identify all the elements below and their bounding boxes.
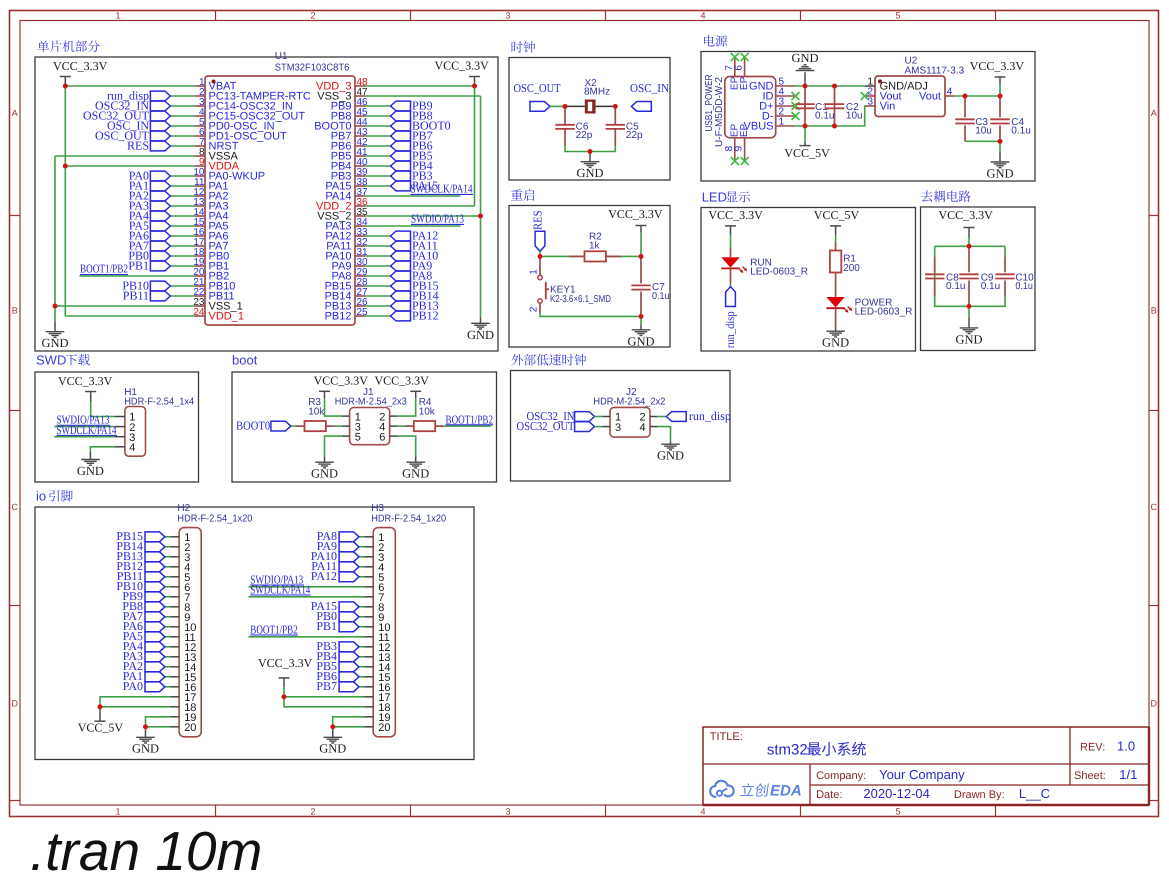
wire H2 pin17 to VCC_5V xyxy=(100,697,170,707)
wire to GND xyxy=(999,141,1001,151)
net flag PB4 xyxy=(391,161,411,171)
section box: clock xyxy=(509,58,670,181)
net flag PA15 xyxy=(391,181,411,191)
capacitor C10 leads xyxy=(1004,257,1006,273)
net label SWDIO/PA13 (H1) xyxy=(57,413,111,427)
net flag PA3 (H2) xyxy=(145,652,165,662)
wire H1 pin4 to GND xyxy=(90,447,114,452)
net flag PA0 (H2) xyxy=(145,682,165,692)
svg-text:GND: GND xyxy=(576,166,603,180)
wire pin 22 xyxy=(170,295,195,297)
ground (H2) xyxy=(136,737,155,743)
svg-text:2: 2 xyxy=(310,806,315,816)
svg-text:24: 24 xyxy=(193,307,205,318)
svg-text:3: 3 xyxy=(615,422,621,434)
junction bottom rail xyxy=(967,304,972,309)
svg-text:VCC_3.3V: VCC_3.3V xyxy=(708,208,763,222)
wire C8 left top xyxy=(934,246,936,256)
svg-text:GND: GND xyxy=(986,167,1013,181)
svg-text:VCC_3.3V: VCC_3.3V xyxy=(970,59,1025,73)
wire VCC rail right xyxy=(474,86,476,206)
H1 pins 1-4 (stubs and numbers) xyxy=(115,412,136,454)
wire H2 pin 9 xyxy=(165,616,171,618)
svg-text:U-F-M5DD-W-2: U-F-M5DD-W-2 xyxy=(714,77,725,147)
svg-text:5: 5 xyxy=(895,10,900,20)
svg-text:0.1u: 0.1u xyxy=(1015,281,1033,292)
junction GND/C2 xyxy=(832,84,837,89)
net flag OSC_OUT xyxy=(150,131,170,141)
svg-text:SWDCLK/PA14: SWDCLK/PA14 xyxy=(250,582,310,596)
section title 重启 xyxy=(511,189,534,201)
svg-text:PB1: PB1 xyxy=(128,258,149,272)
wire pin 44 xyxy=(365,125,391,127)
wire VDDA xyxy=(65,165,195,167)
wire pin 12 xyxy=(170,195,195,197)
wire pin 26 xyxy=(365,305,391,307)
svg-text:run_disp: run_disp xyxy=(689,409,731,423)
svg-text:SWDCLK/PA14: SWDCLK/PA14 xyxy=(411,182,473,196)
wire to GND (reset) xyxy=(640,316,642,324)
net flag PB6 xyxy=(391,141,411,151)
wire H2 pin20 xyxy=(146,726,171,728)
capacitor C9 leads xyxy=(968,246,970,272)
svg-text:0.1u: 0.1u xyxy=(1011,126,1030,137)
svg-text:VCC_3.3V: VCC_3.3V xyxy=(939,208,994,222)
net flag PB12 (H2) xyxy=(145,562,165,572)
svg-text:GND: GND xyxy=(402,467,429,481)
svg-text:LED-0603_R: LED-0603_R xyxy=(855,306,913,317)
svg-text:BOOT1/PB2: BOOT1/PB2 xyxy=(250,622,297,636)
ground stem xyxy=(835,328,837,331)
svg-text:K2-3.6×6.1_SMD: K2-3.6×6.1_SMD xyxy=(550,294,611,305)
svg-text:RES: RES xyxy=(531,211,545,231)
svg-text:10u: 10u xyxy=(975,126,992,137)
net flag PB15 (H2) xyxy=(145,532,165,542)
svg-text:GND: GND xyxy=(955,332,982,346)
wire VCC to RUN LED xyxy=(730,235,732,247)
ground (reset) xyxy=(632,330,651,336)
ground stem xyxy=(415,456,417,462)
net label BOOT1/PB2 (boot) xyxy=(446,412,494,426)
svg-text:Company:: Company: xyxy=(816,770,866,782)
net flag PA5 xyxy=(150,221,170,231)
svg-text:200: 200 xyxy=(843,263,860,274)
net label SWDCLK/PA14 (pin 37) xyxy=(411,182,474,196)
net flag PB7 (H3) xyxy=(339,682,359,692)
section title 去耦电路 xyxy=(921,190,970,202)
svg-text:BOOT1/PB2: BOOT1/PB2 xyxy=(80,262,128,276)
LED RUN cathode lead xyxy=(730,269,732,284)
net flag PA10 xyxy=(391,251,411,261)
wire H2 pin 10 xyxy=(165,626,171,628)
section box: power xyxy=(701,52,1035,182)
wire J2 pin4 to GND xyxy=(658,427,671,442)
junction GND (H2) xyxy=(143,724,148,729)
svg-text:PB7: PB7 xyxy=(316,679,337,693)
net flag PB1 (H3) xyxy=(339,622,359,632)
section title 电源 xyxy=(704,35,727,47)
net flag PB0 (H3) xyxy=(339,612,359,622)
capacitor C8 xyxy=(925,274,944,278)
svg-text:C: C xyxy=(11,502,18,512)
section title 时钟 xyxy=(512,41,536,53)
wire pin 25 xyxy=(365,315,391,317)
svg-text:Date:: Date: xyxy=(816,789,842,801)
svg-text:BOOT1/PB2: BOOT1/PB2 xyxy=(446,412,494,426)
net flag OSC32_OUT xyxy=(575,422,595,432)
wire H3 pin 9 xyxy=(359,616,365,618)
power symbol xyxy=(85,392,96,402)
net flag PB1 xyxy=(150,261,170,271)
wire VCC to rail xyxy=(968,237,970,246)
ground (boot right) xyxy=(406,462,425,468)
net flag PA11 (H3) xyxy=(339,562,359,572)
wire VCC to J1 pin2 xyxy=(397,398,416,416)
wire VDD_3 xyxy=(365,85,475,87)
no-connect pin 6 xyxy=(741,53,749,61)
svg-text:SWDIO/PA13: SWDIO/PA13 xyxy=(411,212,464,226)
wire VBUS to Vin xyxy=(835,106,867,126)
net label SWDIO/PA13 (pin 34) xyxy=(411,212,464,226)
USB1 bottom pins 8,9 (EP) xyxy=(724,124,750,160)
net flag PB8 (H2) xyxy=(145,602,165,612)
svg-text:GND: GND xyxy=(627,334,654,348)
svg-text:GND: GND xyxy=(41,336,68,350)
svg-text:4: 4 xyxy=(700,806,705,816)
net flag PB8 xyxy=(391,111,411,121)
power flag VCC_3.3V (MCU right) xyxy=(435,59,490,87)
svg-text:VCC_5V: VCC_5V xyxy=(78,721,124,735)
power symbol xyxy=(469,77,480,87)
wire BOOT0 to R3 xyxy=(291,425,296,427)
wire pin 7 xyxy=(170,145,195,147)
net flag PA4 (H2) xyxy=(145,642,165,652)
power symbol xyxy=(279,678,290,687)
svg-text:HDR-F-2.54_1x20: HDR-F-2.54_1x20 xyxy=(177,513,252,524)
wire RES to R2/C7 xyxy=(540,255,641,257)
wire VCC_5V to R1 xyxy=(835,235,837,243)
svg-text:0.1u: 0.1u xyxy=(981,281,1000,292)
svg-text:PB12: PB12 xyxy=(412,308,439,322)
net flag PA12 (H3) xyxy=(339,572,359,582)
svg-text:VBUS: VBUS xyxy=(744,121,774,133)
svg-text:A: A xyxy=(12,108,18,118)
wire VBUS xyxy=(795,125,835,127)
ground stem xyxy=(332,727,334,738)
no-connect pin 9 xyxy=(741,157,749,165)
net flag run_disp J2 xyxy=(666,412,686,422)
svg-text:20: 20 xyxy=(184,722,196,734)
svg-text:1: 1 xyxy=(529,269,540,275)
svg-text:Drawn By:: Drawn By: xyxy=(954,789,1005,801)
net label SWDCLK/PA14 (H3) xyxy=(250,582,310,596)
ground (SWD) xyxy=(81,460,100,466)
ground (J2) xyxy=(661,444,680,450)
wire pin 45 xyxy=(365,115,391,117)
junction VSS_2 xyxy=(478,214,483,219)
wire H3 pin 14 xyxy=(359,666,365,668)
capacitor C3 xyxy=(955,119,974,123)
power flag VCC_3.3V (H3) xyxy=(258,656,313,687)
wire SWDIO/PA13 to H3 pin6 xyxy=(249,586,365,588)
power flag VCC_3.3V (decoupling) xyxy=(939,208,994,237)
crystal X2 leads xyxy=(565,105,585,107)
ground stem xyxy=(145,727,147,738)
capacitor C4 xyxy=(990,119,1009,123)
power flag VCC_3.3V (SWD) xyxy=(58,374,113,402)
net flag run_disp xyxy=(726,287,736,307)
connector J2 body (HDR-M-2.54_2x2) xyxy=(610,407,650,437)
svg-text:10u: 10u xyxy=(846,111,863,122)
capacitor C7 xyxy=(631,285,650,289)
wire VSSA xyxy=(55,155,195,157)
resistor R2 xyxy=(585,251,606,261)
no-connect pin 7 xyxy=(731,53,739,61)
svg-text:20: 20 xyxy=(378,722,390,734)
wire R4 to BOOT1/PB2 xyxy=(444,425,491,427)
svg-text:6: 6 xyxy=(379,431,385,443)
net flag PB12 xyxy=(391,311,411,321)
capacitor C8 leads xyxy=(934,257,936,273)
capacitor C9 xyxy=(959,274,978,278)
power flag VCC_3.3V (reset) xyxy=(608,207,663,232)
wire H2 pin 13 xyxy=(165,656,171,658)
connector H3 body (HDR-F-2.54_1x20) xyxy=(373,528,395,737)
svg-text:10k: 10k xyxy=(419,407,436,418)
wire H3 pin20 xyxy=(333,726,365,728)
net flag PA8 (H3) xyxy=(339,532,359,542)
svg-text:VCC_3.3V: VCC_3.3V xyxy=(608,207,663,221)
wire VCC vertical rail xyxy=(64,86,66,166)
section title LED显示 xyxy=(702,190,750,205)
svg-text:PA12: PA12 xyxy=(311,569,337,583)
wire VBAT to VCC rail xyxy=(65,85,195,87)
net flag PA7 (H2) xyxy=(145,612,165,622)
capacitor C6 xyxy=(555,125,574,129)
net label SWDIO/PA13 (H3) xyxy=(250,572,304,586)
net flag PA2 (H2) xyxy=(145,662,165,672)
net label BOOT1/PB2 (H3) xyxy=(250,622,298,636)
power symbol xyxy=(830,226,841,236)
svg-text:4: 4 xyxy=(700,10,705,20)
svg-text:LED-0603_R: LED-0603_R xyxy=(750,266,808,277)
wire J1 pin5 to GND xyxy=(325,436,342,456)
ground (MCU right) xyxy=(471,323,490,329)
wire pin 41 xyxy=(365,155,391,157)
svg-text:boot: boot xyxy=(232,353,258,368)
power flag VCC_5V (below VBUS) xyxy=(784,141,830,160)
wire pin 18 xyxy=(170,255,195,257)
J1 pins (stubs and numbers) xyxy=(342,411,397,443)
svg-text:io: io xyxy=(36,489,46,504)
net flag PB13 xyxy=(391,301,411,311)
svg-text:1/1: 1/1 xyxy=(1119,767,1137,782)
junction dots overlay xyxy=(53,84,1003,730)
wire U2 Vout to VCC_3.3V xyxy=(954,95,1000,97)
junction VBUS/C1 xyxy=(803,124,808,129)
svg-text:GND: GND xyxy=(311,467,338,481)
pushbutton KEY1 xyxy=(538,256,549,313)
svg-text:VCC_3.3V: VCC_3.3V xyxy=(53,59,108,73)
svg-text:2020-12-04: 2020-12-04 xyxy=(863,786,930,801)
net flag PB11 (H2) xyxy=(145,572,165,582)
svg-text:PB12: PB12 xyxy=(325,311,352,323)
net flag PA3 xyxy=(150,201,170,211)
wire H2 pin 2 xyxy=(165,546,171,548)
svg-text:Sheet:: Sheet: xyxy=(1074,770,1106,782)
svg-text:1k: 1k xyxy=(589,241,601,252)
section box: decoupling xyxy=(921,207,1036,351)
svg-text:6: 6 xyxy=(734,65,745,71)
J2 pins (stubs and numbers) xyxy=(602,412,657,434)
resistor R3 xyxy=(305,421,326,431)
net label SWDCLK/PA14 (H1) xyxy=(57,423,118,437)
net flag OSC_OUT xyxy=(530,102,550,112)
power flag VCC_3.3V (power section) xyxy=(970,59,1025,86)
svg-text:HDR-M-2.54_2x3: HDR-M-2.54_2x3 xyxy=(335,397,407,408)
wire H3 pin 13 xyxy=(359,656,365,658)
wire VCC to J1 pin1 xyxy=(325,398,342,416)
ground (MCU left) xyxy=(46,332,65,338)
op-amp U1 body (STM32F103C8T6) xyxy=(205,76,355,325)
power symbol xyxy=(60,77,71,87)
capacitor C6 leads xyxy=(564,106,566,124)
junction C7 GND xyxy=(639,314,644,319)
svg-text:VCC_3.3V: VCC_3.3V xyxy=(435,59,490,73)
net flag PA6 (H2) xyxy=(145,622,165,632)
ground (clock) xyxy=(581,162,600,168)
svg-text:9: 9 xyxy=(734,145,745,151)
junction R2/C7 xyxy=(639,254,644,259)
wire pin 3 xyxy=(170,105,195,107)
svg-text:stm32: stm32 xyxy=(767,742,808,759)
wire to GND right xyxy=(480,216,482,317)
svg-text:2: 2 xyxy=(529,306,540,312)
ground stem xyxy=(480,317,482,323)
no-connect D+ xyxy=(792,102,800,110)
capacitor C5 xyxy=(606,125,625,129)
svg-text:5: 5 xyxy=(895,806,900,816)
net flag PB11 xyxy=(150,291,170,301)
svg-text:Vin: Vin xyxy=(880,101,896,113)
svg-text:VDD_1: VDD_1 xyxy=(209,311,244,323)
wire J1 pin6 to GND xyxy=(397,436,416,456)
wire pin 14 xyxy=(170,215,195,217)
svg-text:.tran 10m: .tran 10m xyxy=(30,820,262,880)
wire C3/C4 bottom xyxy=(965,140,1000,142)
wire H3 pin 4 xyxy=(359,566,365,568)
junction VDD_3 xyxy=(472,84,477,89)
svg-text:22p: 22p xyxy=(576,130,593,141)
wire pin 5 xyxy=(170,125,195,127)
resistor R1 xyxy=(830,251,841,273)
svg-text:D: D xyxy=(1151,699,1158,709)
wire H3 pin 3 xyxy=(359,556,365,558)
wire VSS_3 xyxy=(365,95,481,97)
no-connect D- xyxy=(792,112,800,120)
wire H2 pin18 xyxy=(100,706,170,708)
wire pin 33 xyxy=(365,235,391,237)
svg-text:SWD: SWD xyxy=(36,353,66,368)
resistor R1 leads xyxy=(835,243,837,251)
wire H3 pin18 xyxy=(284,697,365,707)
power symbol xyxy=(319,391,330,398)
svg-text:1.0: 1.0 xyxy=(1117,739,1135,754)
junction VBUS/C2 xyxy=(832,124,837,129)
wire H2 pin 1 xyxy=(165,536,171,538)
wire VCC rail to VDD_1 xyxy=(64,166,66,316)
ground stem xyxy=(804,72,806,86)
ground (decoupling) xyxy=(960,328,979,334)
USB1 top pins 7,6 (EP) xyxy=(724,59,750,91)
ground stem xyxy=(589,152,591,162)
net flag PA15 (H3) xyxy=(339,602,359,612)
LED POWER cathode lead xyxy=(835,309,837,329)
svg-text:GND: GND xyxy=(319,741,346,755)
power flag VCC_3.3V (LED) xyxy=(708,208,763,235)
wire H3 pin 1 xyxy=(359,536,365,538)
capacitor C1 lead xyxy=(804,86,806,126)
wire pin 6 xyxy=(170,135,195,137)
junction C4 GND xyxy=(998,139,1003,144)
net label BOOT1/PB2 (pin 20) xyxy=(80,262,128,276)
wire H2 pin 15 xyxy=(165,676,171,678)
svg-text:Vout: Vout xyxy=(919,91,941,103)
svg-text:3: 3 xyxy=(867,97,873,108)
svg-text:GND: GND xyxy=(791,51,818,65)
power flag VCC_3.3V (boot left) xyxy=(314,374,369,399)
resistor R4 xyxy=(414,421,435,431)
wire OSC32_IN to J2 xyxy=(595,416,603,418)
power flag VCC_3.3V (MCU left) xyxy=(53,59,108,86)
svg-text:U1: U1 xyxy=(275,51,288,62)
wire H2 pin 7 xyxy=(165,596,171,598)
svg-text:OSC_OUT: OSC_OUT xyxy=(514,81,562,95)
wire USB GND to U2 xyxy=(795,85,865,87)
svg-text:OSC32_OUT: OSC32_OUT xyxy=(517,419,576,433)
junction GND/C1 xyxy=(803,84,808,89)
wire VCC to H3 pin17 xyxy=(284,687,365,697)
U2 pin 4 Vout xyxy=(919,87,954,103)
capacitor C1 xyxy=(795,104,814,108)
power symbol xyxy=(725,226,736,236)
capacitor C2 xyxy=(825,104,844,108)
svg-text:4: 4 xyxy=(947,87,953,98)
junction C3 xyxy=(963,94,968,99)
svg-text:TITLE:: TITLE: xyxy=(710,731,743,743)
resistor R2 leads xyxy=(569,255,585,257)
wire H2 pin 5 xyxy=(165,576,171,578)
net flag PA8 xyxy=(391,271,411,281)
svg-text:AMS1117-3.3: AMS1117-3.3 xyxy=(905,65,965,76)
wire H2 pin 14 xyxy=(165,666,171,668)
net flag PA5 (H2) xyxy=(145,632,165,642)
net flag PB6 (H3) xyxy=(339,672,359,682)
section box: MCU xyxy=(35,57,498,351)
svg-text:VCC_3.3V: VCC_3.3V xyxy=(258,656,313,670)
net flag OSC32_IN xyxy=(150,101,170,111)
junction VCC/VBAT xyxy=(63,84,68,89)
svg-text:HDR-F-2.54_1x20: HDR-F-2.54_1x20 xyxy=(371,513,446,524)
ground stem xyxy=(968,318,970,328)
wire H3 pin 8 xyxy=(359,606,365,608)
capacitor C10 xyxy=(995,274,1014,278)
section title 单片机部分 xyxy=(37,40,99,52)
wire H3 pin 12 xyxy=(359,646,365,648)
U2 pin 3 Vin xyxy=(866,97,895,113)
svg-text:GND: GND xyxy=(77,464,104,478)
wire pin 30 xyxy=(365,265,391,267)
